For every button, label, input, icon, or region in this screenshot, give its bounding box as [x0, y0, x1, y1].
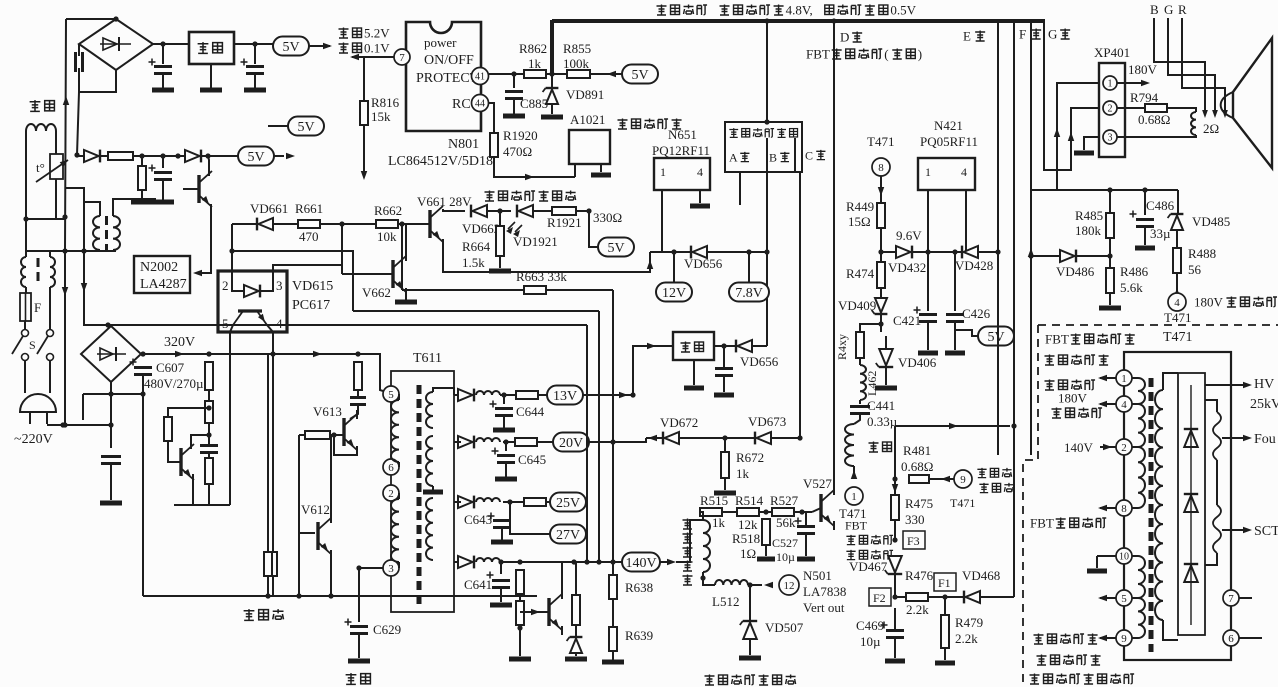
wire 20v out [589, 441, 646, 443]
pin 7 N801 [394, 49, 410, 65]
svg-text:R1920: R1920 [503, 128, 538, 143]
svg-text:V662: V662 [362, 285, 391, 300]
label R672v [736, 466, 750, 481]
svg-text:1: 1 [660, 165, 666, 179]
wire c469 dn [894, 639, 896, 658]
label N501 [803, 568, 832, 583]
svg-text:8: 8 [1121, 503, 1127, 515]
junction 613b [610, 559, 615, 564]
label T471a [839, 506, 866, 521]
wire sec1 top [433, 388, 454, 395]
svg-text:330Ω: 330Ω [593, 210, 622, 225]
wire rv613 dn [357, 390, 359, 396]
junction 20v [503, 439, 508, 444]
diode VD432 [896, 246, 912, 259]
wire r663 row [402, 289, 524, 291]
label RC [452, 97, 471, 112]
zener VD507 [740, 621, 757, 639]
diode VD656 [691, 246, 707, 259]
ground c643 [491, 540, 513, 545]
junction r518 [763, 509, 768, 514]
node 5V-a [273, 37, 309, 56]
resistor R474 [877, 262, 885, 288]
label fbt prot3 [846, 550, 893, 560]
LED VD1921 [517, 205, 533, 218]
diode VD661 [257, 218, 273, 231]
svg-text:VD432: VD432 [888, 260, 926, 275]
svg-text:VD661: VD661 [250, 201, 288, 216]
bridge rectifier D2 [81, 326, 141, 382]
junction bus D [831, 18, 836, 23]
svg-text:PQ12RF11: PQ12RF11 [652, 143, 710, 158]
arrow 140v sense [949, 423, 958, 429]
label R518v [740, 546, 756, 561]
wire thermistor down [55, 179, 57, 219]
label 9.6V [896, 228, 922, 243]
wire stair y325 [83, 324, 587, 326]
wire c486 dn [1144, 228, 1146, 245]
optocoupler PC617 [218, 271, 287, 332]
label R479v [955, 631, 978, 646]
junction n421p1 [925, 249, 930, 254]
label R481v [901, 459, 933, 474]
arrow vert in [764, 582, 773, 588]
wire rd2 dn [208, 423, 210, 444]
label redixian [244, 609, 284, 620]
resistor Rd3 [205, 458, 213, 484]
transistor V612 [318, 518, 331, 554]
undervoltage box [725, 122, 802, 172]
label R638 [625, 580, 653, 595]
diode V25 [458, 496, 474, 509]
svg-text:5V: 5V [282, 40, 299, 55]
label t-deg [36, 160, 45, 175]
pin 2 XP401 [1103, 101, 1117, 115]
svg-text:R639: R639 [625, 628, 653, 643]
junction 881 [878, 321, 883, 326]
label V527 [803, 476, 832, 491]
wire 13v b [500, 394, 516, 396]
junction rq [517, 625, 522, 630]
svg-text:L462: L462 [865, 371, 879, 396]
pin 1 XP401 [1103, 76, 1117, 90]
label R816v [371, 109, 391, 124]
wire rq12 [519, 594, 521, 601]
label R449v [848, 214, 871, 229]
label C486 [1146, 198, 1175, 213]
junction b2top [105, 322, 110, 327]
svg-text:0.1V: 0.1V [364, 41, 390, 56]
wire 5V-a out [309, 45, 330, 47]
svg-text:8: 8 [878, 162, 884, 174]
svg-text:B: B [769, 150, 777, 164]
wire x299 dn [298, 533, 300, 596]
junction rowB [160, 153, 165, 158]
arrow R [1222, 110, 1228, 118]
svg-text:C885: C885 [520, 96, 548, 111]
svg-text:R479: R479 [955, 615, 983, 630]
wire Tb top1 [84, 202, 100, 216]
arrow tb-left [62, 287, 68, 296]
wire emit to vd656 [443, 243, 650, 272]
wire choke2 top [49, 251, 51, 257]
svg-text:C607: C607 [156, 360, 185, 375]
label 180v2 [1058, 391, 1088, 406]
diode VD428 [962, 246, 978, 259]
ground r479 [935, 661, 955, 666]
svg-text:4.8V,: 4.8V, [786, 3, 813, 18]
label VD656b [740, 354, 779, 369]
label R515 [700, 493, 728, 508]
resistor R855 [567, 70, 590, 78]
svg-text:R: R [1178, 2, 1187, 17]
svg-text:C641: C641 [464, 577, 492, 592]
label 220V [14, 432, 53, 447]
label R518 [732, 531, 760, 546]
inductor V25 [476, 498, 500, 502]
label C641 [464, 577, 492, 592]
wire vd467 dn [894, 574, 896, 597]
label crt1 [1034, 634, 1098, 645]
capacitor C3 [241, 59, 265, 74]
svg-text:41: 41 [475, 72, 485, 83]
label VD615 [292, 279, 333, 294]
junction vd432 [878, 249, 883, 254]
arrow SCT [1243, 527, 1252, 533]
ground r639 [602, 660, 624, 665]
wire p5 conn [398, 394, 400, 400]
pin 9 fb [1116, 630, 1132, 646]
resistor Rv613 [354, 362, 362, 390]
svg-text:FBT: FBT [1030, 516, 1054, 531]
wire vd891 d [551, 104, 553, 114]
svg-text:44: 44 [475, 99, 485, 110]
wire r479 up [944, 597, 946, 615]
fb primary c [1138, 447, 1145, 508]
label C469v [860, 634, 881, 649]
label yaokong [618, 119, 682, 130]
resistor R672 [721, 452, 729, 478]
wire vd486 r [1076, 255, 1110, 257]
wire r661-r662 [320, 223, 376, 225]
HV diode 1 [1184, 429, 1198, 447]
wire pc617 in b [260, 271, 273, 291]
wire r527 out [794, 511, 812, 513]
svg-text:T471: T471 [1163, 330, 1193, 345]
svg-text:3: 3 [388, 563, 394, 575]
junction y425a [60, 422, 65, 427]
junction ind [497, 208, 502, 213]
label guzhang [339, 41, 391, 56]
wire c629 dn [358, 568, 360, 622]
junction c629 [356, 565, 361, 570]
svg-text:7.8V: 7.8V [735, 286, 763, 301]
wire c527 a [805, 512, 807, 526]
label R488v [1188, 262, 1202, 277]
wire reg2 gnd [693, 360, 695, 385]
wire rowA down2 [141, 190, 143, 200]
arrow F up [1028, 248, 1034, 257]
svg-text:5V: 5V [607, 241, 624, 256]
ground vdq [565, 657, 587, 662]
svg-text:2Ω: 2Ω [1203, 121, 1219, 136]
junction yoke [700, 575, 705, 580]
resistor R794 [1145, 104, 1167, 112]
wire b2 top to stair [83, 325, 111, 326]
label zhengchang [339, 26, 391, 41]
node 5V-e [598, 238, 634, 257]
label R527 [770, 493, 799, 508]
label VD467 [849, 559, 888, 574]
wire yoke to r515 [700, 512, 703, 520]
label changpian5 [683, 575, 693, 586]
wire fb9 [1132, 637, 1138, 639]
svg-text:3: 3 [276, 278, 283, 293]
svg-text:13V: 13V [553, 389, 577, 404]
junction r479 [942, 594, 947, 599]
degauss coil [26, 124, 56, 131]
label S [29, 338, 36, 352]
wire hyoke dn [853, 466, 855, 477]
label V661 [417, 194, 472, 209]
resistor R488 [1173, 248, 1181, 273]
wire fb p6 r [1239, 637, 1262, 639]
label changpian [683, 519, 693, 530]
svg-text:0.5V: 0.5V [890, 3, 916, 18]
wire vd409 dn [880, 314, 882, 332]
label L512 [712, 594, 739, 609]
svg-text:XP401: XP401 [1094, 45, 1130, 60]
svg-text:6: 6 [1228, 633, 1234, 645]
label D lu [840, 30, 862, 45]
wire tb branch [65, 188, 84, 202]
arrow r1920 [525, 174, 534, 180]
pin 6 T611 [383, 459, 399, 475]
junction rd2 [206, 432, 211, 437]
wire cap2 gnd lead [162, 74, 164, 88]
arrow 140v [667, 559, 676, 565]
speaker horn [1221, 38, 1272, 168]
resistor Rrow [108, 152, 133, 160]
wire 140v b [500, 561, 625, 563]
svg-text:R485: R485 [1075, 208, 1103, 223]
wire screen tap [1222, 529, 1248, 531]
wire 320V rail [141, 354, 386, 392]
wire 20v a [454, 441, 461, 443]
svg-text:R4xy: R4xy [835, 334, 849, 360]
inductor L462 [860, 365, 866, 400]
svg-text:SCT: SCT [1254, 524, 1278, 539]
svg-text:5V: 5V [631, 68, 648, 83]
wire Tb bottom rail [26, 250, 116, 252]
thick bus drop [550, 20, 554, 74]
wire p1 feed [1057, 83, 1099, 190]
svg-text:R816: R816 [371, 95, 400, 110]
transistor Vq2 [181, 444, 194, 480]
wire hot return [83, 393, 143, 395]
T611 sec 2 [426, 436, 433, 486]
svg-text:N2002: N2002 [140, 260, 178, 275]
svg-text:R527: R527 [770, 493, 799, 508]
junction 633 [630, 392, 635, 397]
pin 6 fb [1223, 630, 1239, 646]
wire B line [1154, 18, 1205, 112]
fb winding d [1138, 556, 1145, 598]
wire left drop [77, 92, 79, 156]
svg-text:2: 2 [222, 278, 229, 293]
capacitor C645 [492, 448, 516, 463]
resistor R4xy [856, 332, 864, 358]
label 2ohm [1203, 121, 1219, 136]
junction c885 [511, 71, 516, 76]
wire c421 dn [927, 323, 929, 350]
svg-text:1.5k: 1.5k [462, 255, 485, 270]
label VD1921 [513, 234, 558, 249]
wire r672 dn [724, 478, 726, 490]
svg-text:4: 4 [961, 165, 967, 179]
label R794 [1130, 90, 1159, 105]
wire vd486 row [1031, 255, 1060, 257]
pin 3 T611 [383, 560, 399, 576]
svg-text:1: 1 [925, 165, 931, 179]
T611 primary winding [391, 400, 399, 462]
label Fou [1254, 432, 1276, 447]
label V612 [301, 502, 330, 517]
svg-text:T471: T471 [839, 506, 866, 521]
wire 140v sense [895, 425, 1010, 427]
arrow row out [286, 153, 295, 159]
ground c527 [797, 557, 815, 562]
T611 winding 2-3 [391, 499, 399, 562]
wire pc617 pin5 stem [229, 332, 231, 505]
wire v613 c [356, 410, 358, 419]
capacitor Cmf [101, 457, 121, 464]
wire pc4 [267, 325, 273, 332]
capacitor C-line [76, 52, 83, 72]
wire Gv [1044, 21, 1099, 170]
pin 7 fb [1223, 590, 1239, 606]
junction hg3 [328, 593, 333, 598]
label C645 [518, 452, 546, 467]
svg-text:R488: R488 [1188, 246, 1216, 261]
wire v661 e dn [442, 239, 444, 243]
wire c426 stem [954, 252, 956, 311]
node 5V-d [622, 65, 658, 84]
label lengdi [346, 673, 371, 684]
svg-text:5.6k: 5.6k [1120, 280, 1143, 295]
node 5V-b [238, 147, 274, 166]
svg-text:10k: 10k [377, 229, 397, 244]
wire E [997, 21, 999, 455]
resistor R476 [906, 593, 928, 601]
wire yoke top [676, 520, 703, 562]
svg-text:VD672: VD672 [660, 415, 698, 430]
wire r816 dn [363, 125, 365, 176]
wire sec ct [432, 486, 434, 491]
arrow rail2 [313, 351, 322, 357]
svg-text:HV: HV [1254, 377, 1274, 392]
pin1 N421 [925, 165, 931, 179]
diode VD468 [964, 591, 980, 604]
label VD486 [1056, 264, 1095, 279]
wire pc5 [230, 325, 233, 332]
svg-text:56: 56 [1188, 262, 1202, 277]
resistor Rd4 [164, 417, 172, 441]
ground c469 [885, 659, 905, 664]
svg-text:R794: R794 [1130, 90, 1159, 105]
svg-text:320V: 320V [164, 335, 195, 350]
label R664v [462, 255, 485, 270]
wire 13v out [583, 394, 633, 396]
label V662 [362, 285, 391, 300]
label R476v [906, 602, 929, 617]
svg-text:R486: R486 [1120, 264, 1149, 279]
wire x299 [299, 435, 315, 533]
wire fb2 [1132, 446, 1138, 448]
arrow left rail [63, 96, 69, 105]
inductor V140 [476, 558, 500, 562]
resistor R638 [609, 575, 617, 599]
svg-text:C645: C645 [518, 452, 546, 467]
wire 5vc [268, 125, 288, 127]
wire fb p8 l [1100, 507, 1116, 509]
pin 9 T471 [954, 470, 972, 488]
wire stair y311 [353, 310, 599, 312]
wire Fv [1030, 21, 1032, 455]
svg-text:R672: R672 [736, 450, 764, 465]
label C885 [520, 96, 548, 111]
label VD662 [462, 221, 500, 236]
junction n1 [160, 41, 165, 46]
wire r518 dn [765, 545, 767, 556]
label C441 [867, 398, 895, 413]
wire r1921 dn [589, 211, 599, 247]
transistor Vq1 [199, 171, 212, 207]
wire creg2 a [723, 346, 725, 368]
junction hg2 [296, 593, 301, 598]
pin3 PC617 [276, 278, 283, 293]
svg-text:330: 330 [905, 512, 925, 527]
label R661v [299, 229, 319, 244]
label xiaoci [30, 100, 55, 111]
wire rq3 up [575, 562, 577, 595]
capacitor C607 [130, 359, 153, 375]
wire fb p4 l [1100, 403, 1116, 405]
svg-text:1Ω: 1Ω [740, 546, 756, 561]
wire v661 c [443, 209, 465, 211]
junction rd4 [206, 405, 211, 410]
ground gRf1 [131, 200, 153, 205]
wire r515-r514 [722, 511, 737, 513]
resistor R25 [524, 498, 546, 506]
wire 25v c [546, 501, 551, 503]
IC N651 [654, 158, 710, 190]
switch S pole1 [12, 330, 29, 361]
wire stair x599 [598, 311, 600, 562]
svg-text:3: 3 [1108, 133, 1113, 144]
resistor R527 [772, 508, 794, 516]
svg-text:PC617: PC617 [292, 298, 330, 313]
zener VDq [567, 637, 583, 653]
T611 core [417, 385, 422, 605]
wire v612 e [330, 550, 332, 596]
resistor R518 [762, 519, 770, 545]
junction y190a [1107, 187, 1112, 192]
wire left rail [65, 19, 66, 425]
svg-text:2: 2 [388, 488, 394, 500]
wire rd3 dn [174, 484, 209, 505]
svg-text:C644: C644 [516, 404, 545, 419]
